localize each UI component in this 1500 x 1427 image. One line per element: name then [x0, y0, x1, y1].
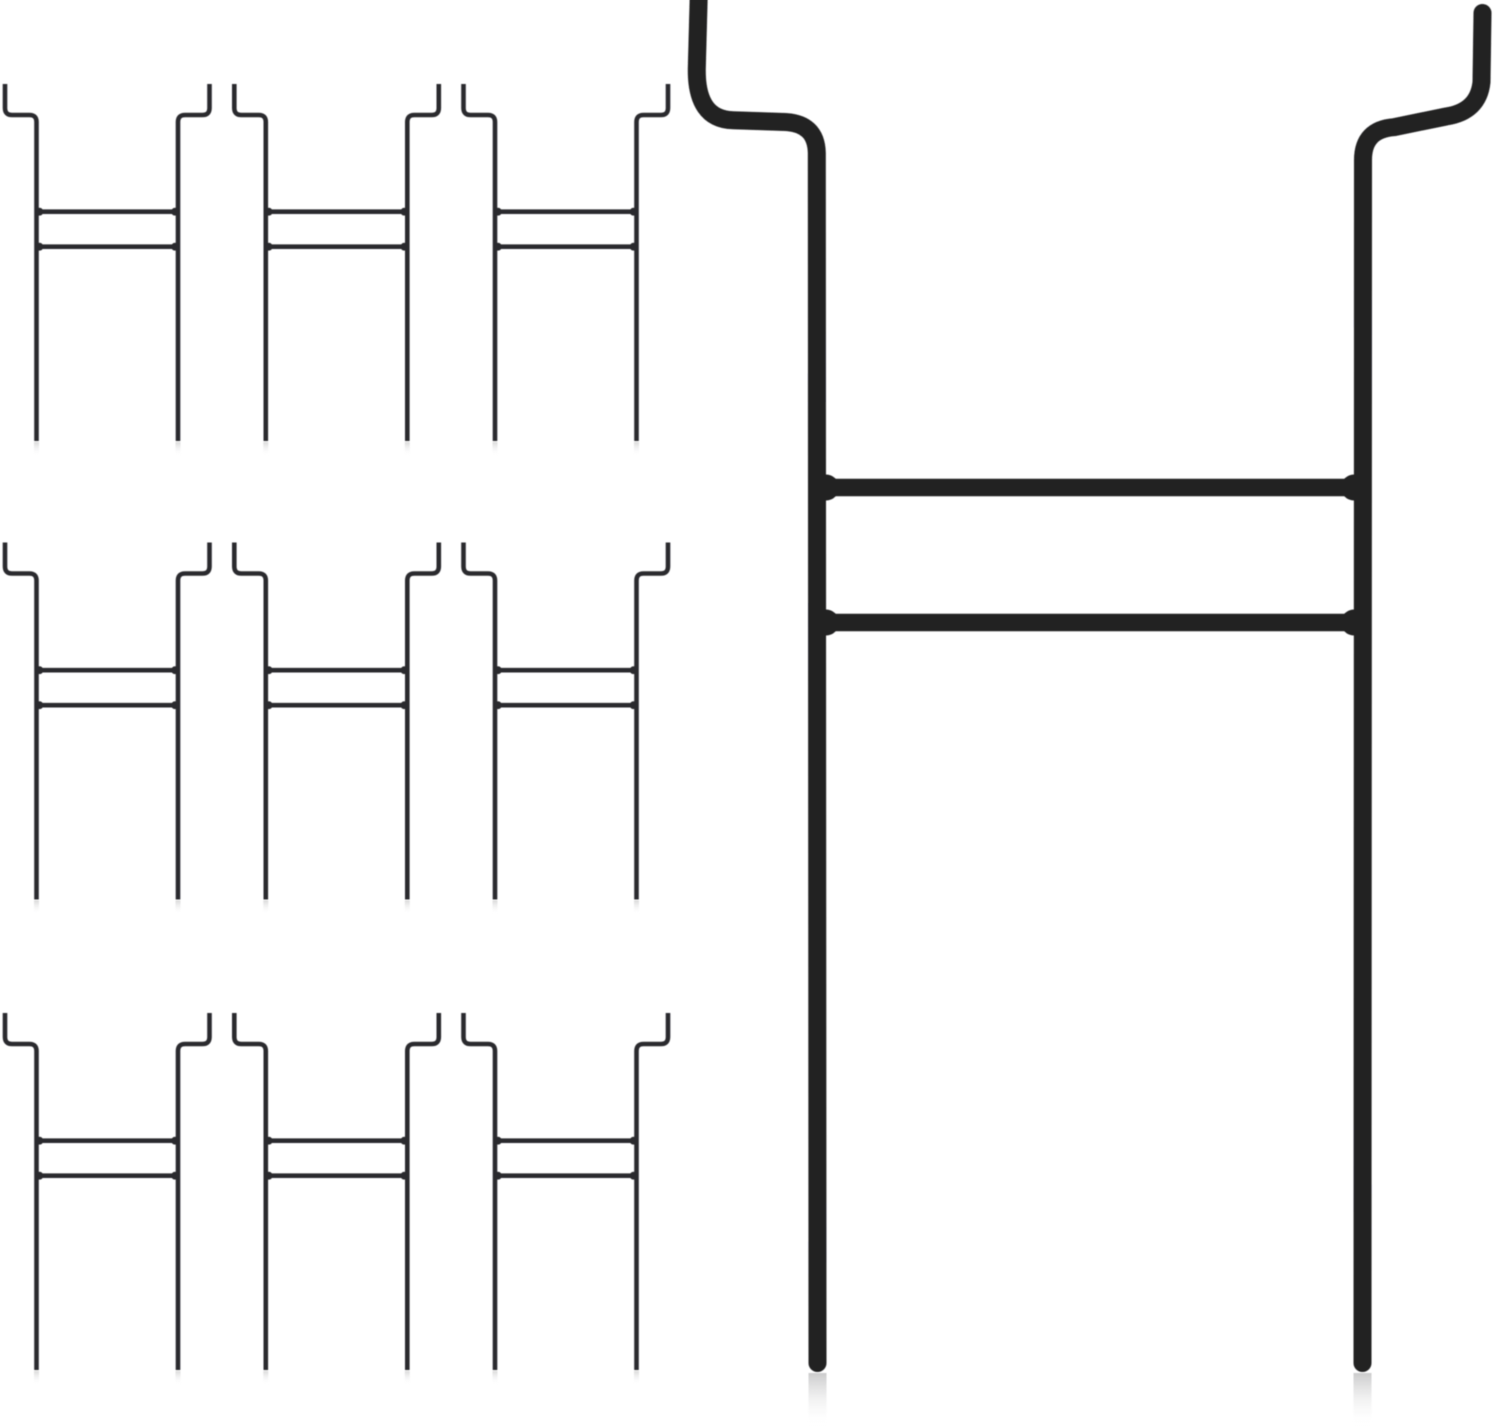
- small H-frame stake row1 col2: [234, 84, 439, 456]
- small H-frame stake row3 col3: [464, 1013, 669, 1385]
- small H-frame stake row3 col2: [234, 1013, 439, 1385]
- small H-frame stake row1 col3: [464, 84, 669, 456]
- small H-frame stake row2 col2: [234, 543, 439, 915]
- small H-frame stake row1 col1: [5, 84, 210, 456]
- small H-frame stake row2 col3: [464, 543, 669, 915]
- large frame lower crossbar: [818, 614, 1362, 632]
- large frame right rider wire with top offset hook: [1363, 13, 1483, 1363]
- small H-frame stake row2 col1: [5, 543, 210, 915]
- small H-frame stake row3 col1: [5, 1013, 210, 1385]
- large frame upper crossbar: [818, 479, 1362, 497]
- large H-frame stake: [697, 0, 1483, 1427]
- large frame leg ground reflections: [809, 1373, 1372, 1427]
- large frame left rider wire with top offset hook (cut off at top): [697, 0, 818, 1363]
- large frame weld balls at crossbar junctions: [813, 475, 1367, 636]
